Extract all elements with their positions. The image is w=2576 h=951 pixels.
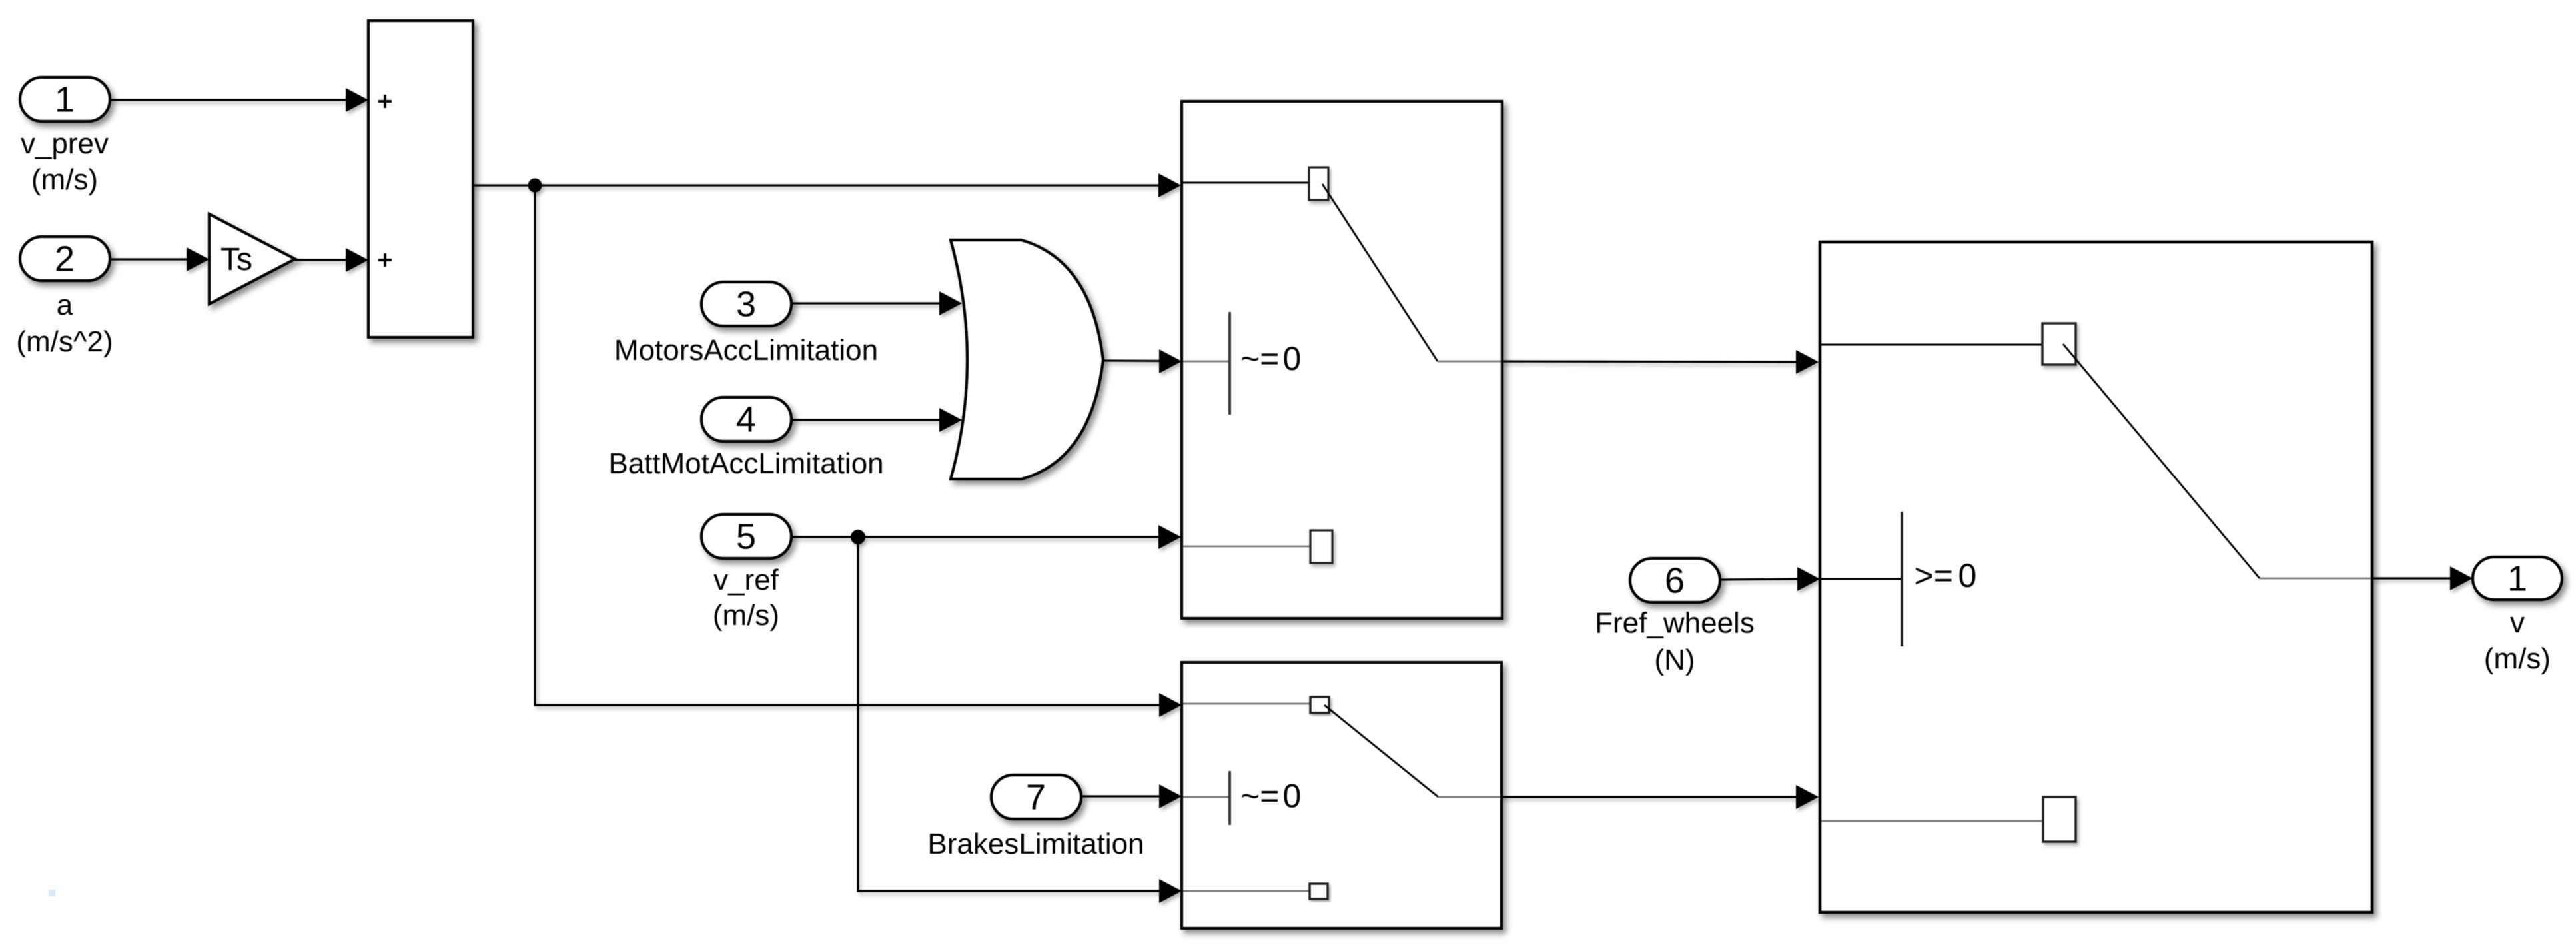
big switch input3 port marker <box>2043 797 2076 842</box>
svg-text:~=: ~= <box>1240 340 1279 377</box>
plus sign input 2 <box>378 253 392 267</box>
switch1 control segment <box>1183 361 1228 363</box>
svg-text:5: 5 <box>736 517 756 557</box>
branch wire down to switch2 input1 <box>535 185 1182 717</box>
outport 1 <box>2473 557 2562 600</box>
svg-text:v_prev: v_prev <box>21 127 109 160</box>
wire port5 to switch1 input3 <box>791 525 1181 549</box>
switch1 input3 internal line <box>1183 546 1310 548</box>
svg-text:2: 2 <box>55 239 75 279</box>
svg-text:BattMotAccLimitation: BattMotAccLimitation <box>608 447 883 480</box>
switch2 output segment <box>1438 796 1500 798</box>
inport 5 <box>701 514 791 558</box>
svg-text:1: 1 <box>2507 559 2527 599</box>
svg-text:(m/s): (m/s) <box>31 163 98 196</box>
gain Ts <box>209 214 295 304</box>
switch2 input3 internal line <box>1183 890 1310 892</box>
svg-text:(m/s^2): (m/s^2) <box>16 325 113 358</box>
big switch diagonal <box>2063 344 2260 578</box>
svg-text:v_ref: v_ref <box>713 564 779 596</box>
wire port6 to big switch control <box>1720 567 1820 591</box>
svg-text:v: v <box>2510 606 2525 639</box>
svg-text:a: a <box>57 289 73 321</box>
svg-text:MotorsAccLimitation: MotorsAccLimitation <box>614 334 878 367</box>
inport 4 <box>701 397 791 441</box>
switch 2 block <box>1182 662 1502 928</box>
svg-text:BrakesLimitation: BrakesLimitation <box>927 828 1144 860</box>
big switch input1 port marker <box>2042 323 2076 365</box>
switch1 diagonal <box>1322 184 1438 361</box>
big switch block <box>1820 242 2372 912</box>
wire big switch to outport <box>2372 566 2473 590</box>
blue selection mark <box>49 890 55 896</box>
svg-text:1: 1 <box>55 80 75 120</box>
sum block <box>368 21 473 337</box>
inport 3 <box>701 282 791 326</box>
big switch threshold line <box>1901 512 1903 646</box>
switch1 input1 internal line <box>1183 182 1309 184</box>
switch2 input1 internal line <box>1183 703 1310 705</box>
svg-text:>=: >= <box>1915 557 1953 594</box>
svg-text:0: 0 <box>1958 557 1977 594</box>
wire gain to sum <box>295 248 368 272</box>
big switch input3 internal line <box>1821 820 2043 822</box>
switch1 input3 port marker <box>1310 530 1332 563</box>
inport 6 <box>1630 558 1720 602</box>
wire switch2 to big switch input3 <box>1502 785 1819 809</box>
switch1 output segment <box>1438 361 1501 363</box>
svg-text:6: 6 <box>1665 561 1685 601</box>
svg-text:(N): (N) <box>1654 644 1695 676</box>
svg-text:(m/s): (m/s) <box>2484 642 2551 675</box>
switch2 diagonal <box>1324 705 1438 797</box>
switch2 input1 port marker <box>1310 697 1329 713</box>
svg-text:0: 0 <box>1283 778 1302 815</box>
switch1 input1 port marker <box>1309 167 1328 200</box>
branch wire down to switch2 input3 <box>858 537 1182 903</box>
wire port3 to OR <box>791 291 962 315</box>
inport 2 <box>20 237 110 281</box>
svg-text:0: 0 <box>1283 340 1302 377</box>
big switch input1 internal line <box>1821 344 2042 346</box>
switch2 control segment <box>1183 796 1228 798</box>
big switch control segment <box>1821 578 1901 580</box>
svg-text:Ts: Ts <box>220 242 252 277</box>
wire switch1 to big switch input1 <box>1502 350 1819 374</box>
inport 1 <box>20 77 110 121</box>
wire sum to switch1 input1 <box>473 173 1181 197</box>
svg-text:4: 4 <box>736 400 756 440</box>
wire OR to switch1 control <box>1103 349 1182 373</box>
plus sign input 1 <box>378 95 392 108</box>
inport 7 <box>991 775 1081 819</box>
svg-text:3: 3 <box>736 285 756 325</box>
switch2 threshold line <box>1228 771 1231 825</box>
svg-text:(m/s): (m/s) <box>713 599 779 632</box>
big switch output segment <box>2260 578 2371 580</box>
wire port4 to OR <box>791 408 962 432</box>
switch 1 block <box>1182 101 1502 618</box>
OR gate <box>951 240 1103 479</box>
switch1 threshold line <box>1228 312 1231 415</box>
wire port1 to sum <box>110 88 368 112</box>
svg-text:Fref_wheels: Fref_wheels <box>1595 607 1755 640</box>
svg-text:~=: ~= <box>1240 778 1279 815</box>
wire port7 to switch2 control <box>1081 784 1182 808</box>
wire port2 to gain <box>110 247 209 271</box>
switch2 input3 port marker <box>1310 884 1328 899</box>
svg-text:7: 7 <box>1026 778 1046 818</box>
